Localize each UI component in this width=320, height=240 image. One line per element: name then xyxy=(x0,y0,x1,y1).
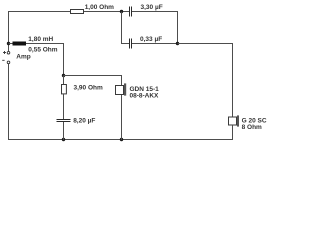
svg-text:1,00 Ohm: 1,00 Ohm xyxy=(85,4,114,11)
svg-text:1,80 mH: 1,80 mH xyxy=(28,36,53,43)
svg-text:08-8-AKX: 08-8-AKX xyxy=(130,93,160,100)
svg-text:8 Ohm: 8 Ohm xyxy=(242,124,262,131)
node junction dot bottom-left branch xyxy=(62,138,65,141)
capacitor C1 3,30 uF xyxy=(130,4,163,17)
svg-text:Amp: Amp xyxy=(16,53,30,60)
inductor L1 1,80 mH 0,55 Ohm xyxy=(9,36,58,54)
wire right vertical lower xyxy=(232,125,234,140)
wire capacitor branch vertical xyxy=(121,12,123,45)
svg-text:3,30 µF: 3,30 µF xyxy=(141,4,163,11)
wire top horizontal right xyxy=(132,11,178,13)
node junction dot top xyxy=(120,10,123,13)
speaker LS2 G 20 SC xyxy=(229,115,267,131)
wire resistor R2 bottom lead xyxy=(63,94,65,120)
wire resistor R2 top lead xyxy=(63,76,65,85)
wire capacitor C2 right lead xyxy=(132,43,178,45)
amplifier terminals Amp xyxy=(2,51,31,64)
capacitor C3 8,20 uF xyxy=(57,118,96,125)
wire top horizontal middle xyxy=(84,11,130,13)
wire speaker LS1 bottom lead xyxy=(121,95,123,140)
node junction dot bottom-middle branch xyxy=(120,138,123,141)
wire top-left vertical xyxy=(8,11,10,51)
node junction dot middle xyxy=(62,74,65,77)
wire speaker LS1 top lead xyxy=(121,76,123,86)
speaker LS1 GDN 15-1 xyxy=(116,83,160,99)
node junction dot left xyxy=(7,42,10,45)
resistor R2 3,90 Ohm xyxy=(62,85,103,94)
node junction dot right xyxy=(176,42,179,45)
wire right-upper vertical xyxy=(177,11,179,44)
svg-text:0,33 µF: 0,33 µF xyxy=(140,36,162,43)
capacitor C2 0,33 uF xyxy=(130,36,163,48)
wire capacitor C2 left lead xyxy=(121,43,130,45)
wire inductor output horizontal xyxy=(26,43,64,45)
wire middle horizontal branch xyxy=(64,75,123,77)
resistor R1 1,00 Ohm xyxy=(71,4,115,14)
wire capacitor C3 bottom lead xyxy=(63,122,65,140)
wire middle horizontal to right xyxy=(178,43,234,45)
wire right vertical upper xyxy=(232,43,234,117)
wire bottom horizontal xyxy=(8,139,233,141)
svg-text:0,55 Ohm: 0,55 Ohm xyxy=(28,47,57,54)
svg-text:3,90 Ohm: 3,90 Ohm xyxy=(74,85,103,92)
wire top horizontal left xyxy=(8,11,71,13)
wire middle vertical down xyxy=(63,44,65,76)
wire left-bottom vertical xyxy=(8,64,10,140)
svg-text:8,20 µF: 8,20 µF xyxy=(73,118,95,125)
